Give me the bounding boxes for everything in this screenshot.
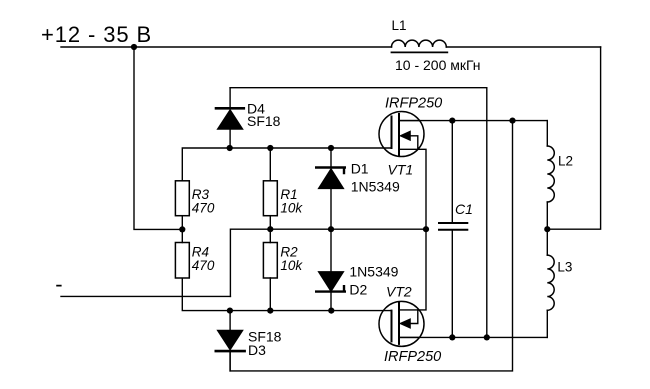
- label D2 value: [349, 264, 398, 280]
- svg-text:VT2: VT2: [386, 284, 412, 300]
- svg-text:SF18: SF18: [247, 113, 281, 129]
- label D1: [351, 161, 369, 177]
- resistor R2: [263, 229, 277, 310]
- node mid-R1R2: [267, 226, 273, 232]
- label D1 value: [351, 179, 400, 195]
- label L2: [558, 154, 573, 169]
- svg-text:470: 470: [192, 201, 215, 216]
- inductor L1: [392, 40, 448, 52]
- svg-text:10k: 10k: [280, 258, 303, 273]
- node drain1-C1: [449, 118, 455, 124]
- label D3: [248, 342, 266, 358]
- node mid-D1D2: [328, 226, 334, 232]
- label +12-35V: [41, 22, 152, 47]
- capacitor C1: [439, 121, 467, 338]
- svg-text:D2: D2: [349, 282, 367, 298]
- wire VT1 drain rail: [399, 120, 547, 122]
- wire D4 top to VT2 drain: [230, 88, 487, 338]
- inductor L2: [547, 121, 554, 230]
- node gate2-D2: [328, 308, 334, 314]
- svg-text:L1: L1: [392, 18, 407, 33]
- node drain2-C1: [449, 334, 455, 340]
- zener D2: [316, 229, 345, 310]
- node junction +V rail: [131, 44, 137, 50]
- svg-text:10k: 10k: [280, 201, 303, 216]
- label D3 value: [248, 329, 282, 345]
- label R1: [280, 187, 297, 202]
- wire minus lead: [61, 295, 230, 297]
- label VT2: [386, 284, 412, 300]
- wire D3 cathode to VT1 drain: [230, 121, 512, 371]
- label D2: [349, 282, 367, 298]
- label C1: [455, 201, 473, 217]
- wire VT2 gate rail: [182, 278, 391, 311]
- node gate1-R1: [267, 145, 273, 151]
- wire +V drop at x=134: [134, 47, 182, 229]
- resistor R3: [175, 181, 189, 230]
- resistor R4: [175, 229, 189, 278]
- label VT1: [388, 162, 414, 178]
- svg-text:470: 470: [192, 258, 215, 273]
- svg-text:1N5349: 1N5349: [349, 264, 398, 280]
- resistor R1: [263, 148, 277, 229]
- node gate1-D4: [227, 145, 233, 151]
- svg-text:1N5349: 1N5349: [351, 179, 400, 195]
- node drain2-D4: [484, 334, 490, 340]
- svg-text:IRFP250: IRFP250: [384, 349, 441, 365]
- label D4 value: [247, 113, 281, 129]
- transistor VT2 (MOSFET): [379, 229, 426, 346]
- svg-text:VT1: VT1: [388, 162, 414, 178]
- label R4: [192, 245, 209, 260]
- zener D1: [316, 148, 345, 229]
- transistor VT1 (MOSFET): [379, 112, 426, 230]
- wire +V rail top: [61, 46, 601, 48]
- wire VT1 gate rail: [182, 148, 391, 181]
- svg-text:D3: D3: [248, 342, 266, 358]
- label R1 value: [280, 201, 303, 216]
- svg-text:L2: L2: [558, 154, 573, 169]
- svg-text:-: -: [55, 272, 62, 297]
- label R3 value: [192, 201, 215, 216]
- label L3: [557, 260, 572, 275]
- svg-text:IRFP250: IRFP250: [385, 96, 442, 112]
- node Vplus-R3R4: [179, 226, 185, 232]
- svg-text:10 - 200 мкГн: 10 - 200 мкГн: [395, 57, 481, 73]
- svg-text:L3: L3: [557, 260, 572, 275]
- node L2L3: [544, 226, 550, 232]
- wire VT2 drain rail: [399, 336, 547, 338]
- wire right side down from L1: [547, 47, 600, 229]
- label VT2 type: [384, 349, 441, 365]
- diode D4: [216, 88, 244, 148]
- label VT1 type: [385, 96, 442, 112]
- svg-text:D1: D1: [351, 161, 369, 177]
- node mid-sources: [423, 226, 429, 232]
- node gate2-R2: [267, 308, 273, 314]
- label R4 value: [192, 258, 215, 273]
- svg-text:C1: C1: [455, 201, 473, 217]
- diode D3: [216, 311, 245, 371]
- inductor L3: [547, 229, 554, 337]
- label R2: [280, 245, 298, 260]
- label minus terminal: [55, 272, 62, 297]
- svg-text:+12 - 35 В: +12 - 35 В: [41, 22, 152, 47]
- label R2 value: [280, 258, 303, 273]
- node gate1-D1: [328, 145, 334, 151]
- wire source mid rail: [230, 229, 426, 296]
- node drain1-D3: [509, 118, 515, 124]
- label R3: [192, 187, 210, 202]
- label D4: [247, 101, 265, 117]
- node gate2-D3: [227, 308, 233, 314]
- label L1 value: [395, 57, 481, 73]
- label L1: [392, 18, 407, 33]
